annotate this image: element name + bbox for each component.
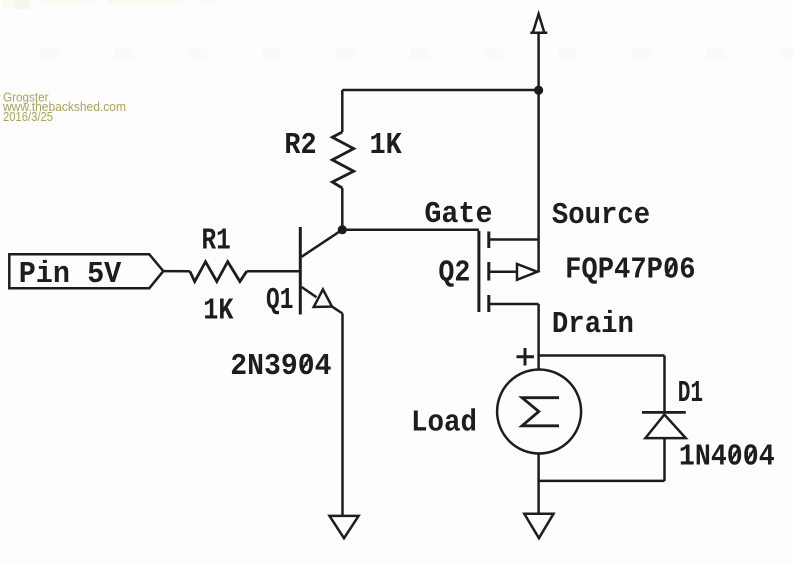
resistor R2 [332,132,353,188]
pin flag Pin 5V [9,254,163,288]
svg-text:D1: D1 [678,376,703,411]
mosfet Q2 body lead and arrow [490,264,537,280]
svg-text:R2: R2 [284,128,316,163]
svg-text:Pin 5V: Pin 5V [19,257,122,292]
svg-text:2016/3/25: 2016/3/25 [3,110,53,124]
node junction base/collector [338,225,347,234]
svg-text:2N3904: 2N3904 [230,349,331,384]
wire diode top lead [663,356,666,413]
transistor Q1 collector [302,230,343,257]
svg-text:1N4004: 1N4004 [679,440,775,475]
svg-text:1K: 1K [370,128,403,163]
transistor Q1 body bar [299,227,302,315]
svg-text:Source: Source [552,198,650,233]
wire Q2 drain down to load [537,304,540,370]
wire flag to R1 [163,270,190,273]
slashes of zeros in 1N4004 [731,447,740,462]
wire VCC vertical to Q2 source [537,33,540,272]
mosfet Q2 source lead [490,238,539,241]
wire drain node to diode top [539,354,665,357]
wire junction to Q2 gate [342,228,479,231]
wire R1 to Q1 base [247,270,300,273]
svg-text:Gate: Gate [424,197,492,232]
load symbol circle [497,370,581,454]
wire R2 top lead [341,90,344,132]
transistor Q1 emitter with arrow [302,287,343,314]
diode D1 cathode bar [642,411,686,414]
wire R2 bottom lead [341,188,344,230]
plus sign [517,348,534,366]
slash of zero in FQP47P06 [666,261,675,276]
faint top edge remnants [2,0,218,9]
watermark credit text [2,91,126,125]
svg-text:Drain: Drain [552,307,634,342]
svg-text:FQP47P06: FQP47P06 [565,253,696,288]
ground under load [524,514,553,538]
mosfet Q2 drain lead [490,303,539,306]
mosfet Q2 channel dashes [487,232,490,313]
wire top horizontal to R2 [342,89,538,92]
resistor R1 [190,262,247,282]
faint watermark squares row [40,48,793,60]
wire load bottom to ground [537,454,540,514]
wire diode bottom lead [663,438,666,481]
svg-text:Q1: Q1 [266,283,293,318]
ground under Q1 [330,516,359,538]
svg-text:Load: Load [411,406,477,441]
mosfet Q2 gate bar [477,231,480,312]
slash of zero in 2N3904 [302,356,311,371]
svg-text:R1: R1 [202,223,231,258]
svg-text:1K: 1K [203,294,234,329]
sigma inside load [522,398,559,426]
wire bottom horizontal [539,480,665,483]
wire Q1 emitter to ground [341,314,344,516]
node junction VCC [534,86,543,95]
svg-text:Q2: Q2 [438,256,470,291]
power arrow VCC [530,14,547,33]
diode D1 triangle [645,415,685,439]
